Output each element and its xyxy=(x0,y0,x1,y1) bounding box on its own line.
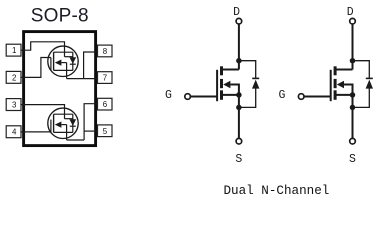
pin 3 box xyxy=(6,99,21,111)
Q2 body lead xyxy=(61,124,66,126)
wire Q1 to pin8 xyxy=(84,52,98,79)
M1 drain lead xyxy=(222,69,239,71)
svg-text:7: 7 xyxy=(103,74,107,83)
Q2 drain lead (top) xyxy=(54,113,73,115)
M1 channel segment top xyxy=(220,66,223,75)
svg-text:SOP-8: SOP-8 xyxy=(31,6,89,27)
transistor Q2 envelope circle xyxy=(48,108,78,138)
pin 1 box xyxy=(6,44,112,138)
schematic transistor M2 xyxy=(279,6,373,166)
pin 5 box xyxy=(98,125,113,137)
svg-text:1: 1 xyxy=(12,46,16,55)
Q2 diode cathode bar xyxy=(70,125,76,127)
svg-text:2: 2 xyxy=(12,73,16,82)
M2 gate bar xyxy=(330,70,332,101)
M2 terminal S circle xyxy=(350,138,356,144)
M2 source junction dot xyxy=(350,92,356,98)
package body U1 (SOP-8 outline) xyxy=(24,32,96,146)
M2 source wire xyxy=(352,95,354,138)
Q1 source lead (bottom) xyxy=(54,69,73,71)
M2 body lead xyxy=(344,85,353,95)
wire Q2 drain bus xyxy=(67,139,85,141)
wire Q2 inner stub xyxy=(65,118,73,120)
M1 source wire xyxy=(238,95,240,138)
Q2 source drop wire xyxy=(66,125,68,140)
Q2 gate bar xyxy=(50,120,52,132)
M1 gate bar xyxy=(216,70,218,101)
pin 7 box xyxy=(98,72,113,84)
M1 gate wire xyxy=(191,96,217,98)
M1 terminal S circle xyxy=(236,138,242,144)
svg-text:D: D xyxy=(233,6,240,19)
M2 diode branch xyxy=(353,61,370,79)
wire pin2 to Q1 gate xyxy=(20,58,51,78)
M2 channel segment top xyxy=(334,66,337,75)
svg-text:S: S xyxy=(349,153,356,166)
M2 drain lead xyxy=(335,69,352,71)
svg-text:5: 5 xyxy=(103,127,108,136)
Q1 gate bar xyxy=(50,58,52,71)
M2 terminal D circle xyxy=(350,18,356,24)
M2 diode junction dot xyxy=(350,105,356,111)
Q1 channel bar xyxy=(53,52,55,70)
Q1 body diode line xyxy=(72,52,74,70)
svg-text:3: 3 xyxy=(12,101,17,110)
pin 4 box xyxy=(6,126,21,138)
M2 gate wire xyxy=(304,96,330,98)
M2 terminal G circle xyxy=(298,94,304,100)
Q2 diode triangle xyxy=(69,119,76,126)
M2 body arrow xyxy=(337,81,344,88)
svg-text:4: 4 xyxy=(12,128,17,137)
wire pin3 to Q2 xyxy=(20,105,64,119)
M2 channel segment bottom xyxy=(334,90,337,100)
M1 body lead xyxy=(230,85,239,95)
Q1 diode triangle xyxy=(69,57,76,64)
pin 6 box xyxy=(98,98,113,110)
M1 drain junction dot xyxy=(236,58,242,64)
svg-text:S: S xyxy=(235,153,242,166)
schematic transistor M1 xyxy=(165,6,259,166)
M2 diode triangle xyxy=(366,80,373,89)
svg-text:G: G xyxy=(165,89,172,102)
M1 source junction dot xyxy=(236,92,242,98)
wire pin1 to Q1 xyxy=(20,42,64,57)
M2 diode cathode bar xyxy=(366,77,373,79)
Q2 body arrow xyxy=(55,122,62,128)
svg-text:8: 8 xyxy=(103,47,108,56)
M2 source lead xyxy=(335,94,352,96)
M1 channel segment middle xyxy=(220,79,223,88)
svg-text:D: D xyxy=(347,6,354,19)
wire Q2 to pin5 xyxy=(84,130,97,132)
M1 drain wire xyxy=(238,24,240,69)
M2 drain wire xyxy=(352,24,354,69)
M1 terminal G circle xyxy=(185,94,191,100)
M2 diode branch lower xyxy=(353,89,370,108)
M1 diode branch lower xyxy=(239,89,256,108)
svg-text:Dual N-Channel: Dual N-Channel xyxy=(224,184,330,198)
pin number 1 xyxy=(12,46,108,137)
pin 8 box xyxy=(98,45,113,57)
Q1 source drop wire xyxy=(66,63,68,79)
wire Q1 inner stub xyxy=(65,56,73,58)
M2 channel segment middle xyxy=(334,79,337,88)
M1 diode branch xyxy=(239,61,256,79)
pin 2 box xyxy=(6,71,21,83)
svg-text:6: 6 xyxy=(103,100,108,109)
M1 diode cathode bar xyxy=(252,77,259,79)
M1 terminal D circle xyxy=(236,18,242,24)
Q2 source lead (bottom) xyxy=(54,131,73,133)
M1 body arrow xyxy=(223,81,230,88)
Q1 drain lead (top) xyxy=(54,51,73,53)
M1 source lead xyxy=(222,94,239,96)
M1 diode junction dot xyxy=(236,105,242,111)
Q1 diode cathode bar xyxy=(70,63,76,65)
M2 drain junction dot xyxy=(350,58,356,64)
wire Q2 to pin6 xyxy=(84,104,97,140)
Q1 body lead xyxy=(61,62,66,64)
M1 channel segment bottom xyxy=(220,90,223,100)
wire pin4 to Q2 gate xyxy=(20,131,51,133)
Q2 channel bar xyxy=(53,114,55,132)
Q2 body diode line xyxy=(72,114,74,132)
transistor Q1 envelope circle xyxy=(48,46,78,76)
M1 diode triangle xyxy=(252,80,259,89)
wire Q1 to pin7 xyxy=(67,78,98,80)
Q1 body arrow xyxy=(55,60,62,66)
svg-text:G: G xyxy=(279,89,286,102)
